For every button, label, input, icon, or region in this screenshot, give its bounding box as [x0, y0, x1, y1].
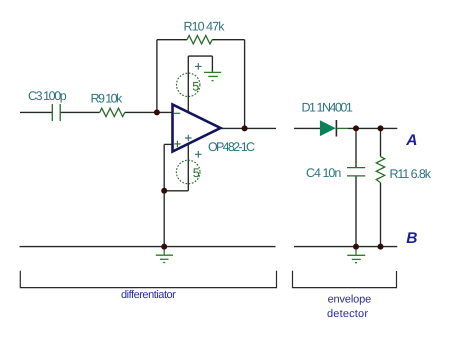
svg-text:D1 1N4001: D1 1N4001 — [302, 101, 353, 115]
svg-text:C4 10n: C4 10n — [306, 166, 341, 180]
svg-text:5: 5 — [192, 79, 199, 93]
svg-text:A: A — [405, 132, 417, 149]
svg-text:detector: detector — [327, 308, 368, 320]
svg-text:envelope: envelope — [328, 294, 371, 306]
svg-text:R9 10k: R9 10k — [91, 92, 123, 106]
svg-text:R11 6.8k: R11 6.8k — [390, 167, 432, 181]
svg-text:5: 5 — [193, 166, 200, 180]
svg-text:C3 100p: C3 100p — [28, 89, 67, 103]
svg-text:B: B — [406, 230, 417, 247]
svg-text:R10 47k: R10 47k — [184, 19, 226, 33]
svg-text:differentiator: differentiator — [121, 289, 176, 301]
svg-text:OP482-1C: OP482-1C — [208, 140, 255, 154]
